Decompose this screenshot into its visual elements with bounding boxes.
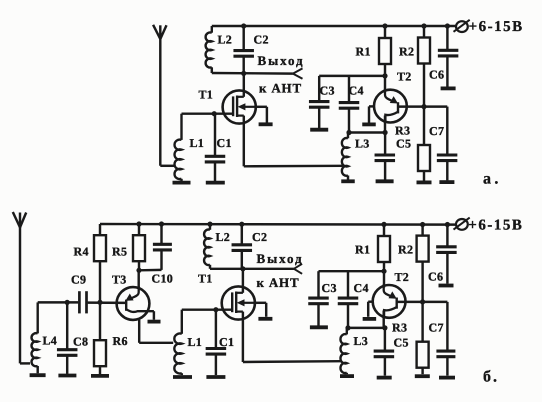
capacitor C5 (circuit a) <box>375 133 396 180</box>
svg-text:б.: б. <box>483 369 499 386</box>
node R2a top <box>421 23 426 28</box>
label R4 <box>74 244 89 258</box>
ground below L3b <box>340 374 354 378</box>
svg-text:C10: C10 <box>152 272 174 286</box>
node C4b bottom <box>345 325 350 330</box>
svg-text:C2: C2 <box>254 33 269 47</box>
inductor L2 (circuit a) <box>206 26 212 73</box>
wire T1b gate <box>182 308 232 310</box>
capacitor C2 (circuit b) <box>232 224 253 269</box>
label C7 <box>429 124 444 138</box>
label C8 <box>73 335 88 349</box>
resistor R6 (circuit b) <box>94 302 106 374</box>
ground T2a case <box>362 123 376 127</box>
node gate/C1 junction b <box>213 307 218 312</box>
svg-text:L4: L4 <box>43 334 58 348</box>
label T2 b <box>395 270 410 284</box>
capacitor C9 (circuit b) <box>79 291 86 313</box>
node output junction b <box>240 266 245 271</box>
antenna W1 (circuit a) <box>153 25 166 39</box>
label C6 b <box>428 269 443 283</box>
node T2a collector junction <box>383 130 388 135</box>
node output junction a <box>241 71 246 76</box>
ground T1a substrate <box>259 122 273 126</box>
wire T2a collector down <box>384 116 386 133</box>
wire C9 to T3 base <box>88 301 127 304</box>
svg-text:T1: T1 <box>199 88 214 102</box>
node C8 top <box>65 300 70 305</box>
ground below C1a <box>206 181 225 185</box>
svg-text:+6-15В: +6-15В <box>469 19 524 35</box>
label L2 b <box>216 230 231 244</box>
output fork to antenna (circuit b) <box>294 264 302 274</box>
label C4 <box>349 84 364 98</box>
node R4/R6/base junction <box>97 300 102 305</box>
capacitor C4 (circuit b) <box>338 271 359 328</box>
node T2b collector junction <box>382 325 387 330</box>
ground T2b case <box>363 317 377 321</box>
capacitor C1 (circuit b) <box>206 310 227 375</box>
capacitor C1 (circuit a) <box>205 114 226 182</box>
wire T2a base (circuit a) <box>398 105 447 107</box>
node gate/C1 junction a <box>212 111 217 116</box>
svg-text:C6: C6 <box>428 269 443 283</box>
label C3 b <box>322 281 337 295</box>
label C9 <box>71 273 86 287</box>
ground below R3a <box>417 180 432 184</box>
label Vyhod (output) b <box>257 251 304 266</box>
svg-text:R1: R1 <box>355 243 370 257</box>
wire T1b substrate to ground <box>255 303 266 317</box>
label C5 <box>396 136 411 150</box>
power terminal +6-15V (circuit b) <box>454 217 524 233</box>
wire T3 emitter from R5/C10 <box>137 270 139 287</box>
label C5 b <box>394 335 409 349</box>
svg-text:C3: C3 <box>320 84 335 98</box>
svg-text:C4: C4 <box>354 281 369 295</box>
transistor T1 (MOSFET, circuit a) <box>223 90 256 123</box>
transistor T3 (circuit b) <box>117 286 154 320</box>
wire antenna lead down (circuit a) <box>160 38 175 166</box>
svg-text:C7: C7 <box>429 124 444 138</box>
inductor L2 (circuit b) <box>204 224 210 269</box>
capacitor C2 (circuit a) <box>233 26 254 74</box>
ground below C5b <box>377 376 392 380</box>
label T1 b <box>198 272 213 286</box>
svg-text:C3: C3 <box>322 281 337 295</box>
label C1 b <box>219 335 234 349</box>
svg-text:L2: L2 <box>218 33 233 47</box>
label C6 <box>429 68 444 82</box>
capacitor C5 (circuit b) <box>374 328 395 376</box>
node C6a top <box>445 23 450 28</box>
wire T2b case lead to ground <box>368 302 373 317</box>
ground below L1a <box>173 181 191 185</box>
label C1 <box>217 136 232 150</box>
ground below C7a <box>439 180 454 184</box>
svg-text:L3: L3 <box>354 334 369 348</box>
wire T1b source down <box>243 312 341 362</box>
node R3b top <box>420 299 425 304</box>
label L1 <box>190 136 205 150</box>
resistor R5 (circuit b) <box>133 224 145 270</box>
wire T3 collector to ground <box>153 311 155 320</box>
svg-text:+6-15В: +6-15В <box>468 217 523 233</box>
wire C4a to T2a collector <box>349 131 385 133</box>
svg-text:Выход: Выход <box>257 251 304 266</box>
svg-text:R6: R6 <box>113 334 128 348</box>
label k ANT b <box>257 275 300 290</box>
node R1b top <box>381 222 386 227</box>
resistor R3 (circuit a) <box>418 107 430 181</box>
capacitor C6 (circuit a) <box>438 26 459 87</box>
svg-text:C1: C1 <box>219 335 234 349</box>
ground T1b substrate <box>258 317 272 321</box>
wire T1a substrate to ground <box>256 107 267 123</box>
resistor R1 (circuit a) <box>379 26 391 90</box>
label R2 b <box>398 243 413 257</box>
wire bypass caps top (circuit b) <box>319 270 385 272</box>
label k ANT a <box>259 81 302 96</box>
ground below C3a <box>310 128 328 132</box>
capacitor C10 (circuit b) <box>139 224 172 270</box>
label R3 b <box>392 321 407 335</box>
inductor L4 (circuit b) <box>32 302 38 373</box>
label T2 <box>397 70 412 84</box>
capacitor C8 (circuit b) <box>57 302 77 374</box>
ground below C8 <box>58 374 76 378</box>
ground below L3a <box>341 179 355 183</box>
ground below C7b <box>439 376 455 380</box>
label L4 <box>43 334 58 348</box>
svg-text:C6: C6 <box>429 68 444 82</box>
capacitor C3 (circuit a) <box>309 76 330 128</box>
inductor L1 (circuit a) <box>175 114 182 182</box>
wire T3 case lead down <box>139 320 173 343</box>
svg-text:L2: L2 <box>216 230 231 244</box>
svg-text:T1: T1 <box>198 272 213 286</box>
svg-text:T3: T3 <box>112 273 127 287</box>
svg-text:к АНТ: к АНТ <box>257 275 300 290</box>
label R3 <box>395 124 410 138</box>
power terminal +6-15V (circuit a) <box>454 19 524 35</box>
inductor L3 (circuit a) <box>342 133 348 180</box>
svg-text:C9: C9 <box>71 273 86 287</box>
node C4a bottom <box>346 130 351 135</box>
ground below C1b <box>206 375 225 379</box>
svg-text:L3: L3 <box>355 136 370 150</box>
ground below C5a <box>376 179 394 183</box>
wire T1a source down <box>244 116 343 167</box>
svg-text:R1: R1 <box>356 44 371 58</box>
label L1 b <box>188 335 203 349</box>
capacitor C4 (circuit a) <box>339 76 360 133</box>
node C10 top <box>159 221 164 226</box>
capacitor C3 (circuit b) <box>308 271 329 325</box>
svg-text:C7: C7 <box>429 321 444 335</box>
label L2 <box>218 33 233 47</box>
capacitor C7 (circuit b) <box>436 302 455 376</box>
label variant b <box>483 369 499 386</box>
label R2 <box>399 44 414 58</box>
wire T2a case lead to ground <box>369 106 374 122</box>
svg-text:C5: C5 <box>396 136 411 150</box>
resistor R2 (circuit b) <box>417 225 429 302</box>
svg-text:T2: T2 <box>397 70 412 84</box>
node R2b top <box>420 222 425 227</box>
svg-text:C8: C8 <box>73 335 88 349</box>
label R1 <box>356 44 371 58</box>
label C2 b <box>252 230 267 244</box>
svg-text:C5: C5 <box>394 335 409 349</box>
ground T3 collector <box>148 320 161 324</box>
node C2a top <box>241 23 246 28</box>
svg-text:к АНТ: к АНТ <box>259 81 302 96</box>
svg-text:Выход: Выход <box>258 53 305 68</box>
svg-text:R5: R5 <box>112 244 127 258</box>
label C4 b <box>354 281 369 295</box>
label C3 <box>320 84 335 98</box>
wire top supply rail (circuit b) <box>100 223 456 226</box>
wire input node to C9 <box>38 301 78 303</box>
wire bypass caps top (circuit a) <box>319 75 385 77</box>
antenna W1 (circuit b) <box>13 212 26 227</box>
resistor R1 (circuit b) <box>378 224 390 287</box>
resistor R4 (circuit b) <box>94 224 106 302</box>
label R1 b <box>355 243 370 257</box>
wire T2b collector down <box>382 311 384 328</box>
wire T1b drain up <box>242 269 244 293</box>
label C10 <box>152 272 174 286</box>
ground below C3b <box>310 325 328 329</box>
transistor T2 (circuit a) <box>374 89 407 123</box>
wire C4b to T2b collector <box>348 327 385 329</box>
svg-text:R4: R4 <box>74 244 89 258</box>
label R6 <box>113 334 128 348</box>
transistor T2 (circuit b) <box>373 284 406 318</box>
label C7 b <box>429 321 444 335</box>
inductor L3 (circuit b) <box>340 328 346 374</box>
node R1a top <box>382 23 387 28</box>
label L3 <box>355 136 370 150</box>
node R3a top <box>421 104 426 109</box>
node C2b top <box>239 222 244 227</box>
wire top supply rail (circuit a) <box>212 25 456 27</box>
node C6b top <box>445 222 450 227</box>
svg-text:C1: C1 <box>217 136 232 150</box>
output fork to antenna (circuit a) <box>293 68 303 78</box>
transistor T1 (MOSFET, circuit b) <box>222 286 255 319</box>
svg-text:C4: C4 <box>349 84 364 98</box>
label Vyhod (output) a <box>258 53 305 68</box>
wire tank bottom / output (circuit b) <box>210 268 294 270</box>
label variant a <box>483 171 502 188</box>
capacitor C6 (circuit b) <box>436 225 457 284</box>
inductor L1 (circuit b) <box>174 310 181 375</box>
wire tank bottom / output (circuit a) <box>212 72 293 75</box>
ground below C6b <box>439 284 454 288</box>
label C2 <box>254 33 269 47</box>
wire T2b base (circuit b) <box>397 301 448 303</box>
svg-text:L1: L1 <box>190 136 205 150</box>
svg-text:а.: а. <box>483 171 502 188</box>
node R1b bottom junction <box>381 269 386 274</box>
wire antenna lead down (circuit b) <box>20 226 30 363</box>
wire T1a gate <box>182 112 234 114</box>
node R1a bottom junction <box>382 73 387 78</box>
ground below R6 <box>91 374 109 378</box>
svg-text:T2: T2 <box>395 270 410 284</box>
label L3 b <box>354 334 369 348</box>
label T1 <box>199 88 214 102</box>
capacitor C7 (circuit a) <box>437 107 458 181</box>
ground below R3b <box>415 374 430 378</box>
node R5/C10 junction <box>136 268 141 273</box>
resistor R3 (circuit b) <box>417 302 429 374</box>
wire T1a drain to tank <box>243 74 245 97</box>
ground below L4 <box>30 373 46 377</box>
ground below C6a <box>441 87 456 91</box>
label T3 <box>112 273 127 287</box>
svg-text:R3: R3 <box>392 321 407 335</box>
resistor R2 (circuit a) <box>418 26 430 107</box>
svg-text:R2: R2 <box>398 243 413 257</box>
svg-text:L1: L1 <box>188 335 203 349</box>
ground below L1b <box>173 375 192 379</box>
label R5 <box>112 244 127 258</box>
svg-text:R2: R2 <box>399 44 414 58</box>
node R5b top <box>136 221 141 226</box>
node L2b top <box>207 222 212 227</box>
svg-text:C2: C2 <box>252 230 267 244</box>
